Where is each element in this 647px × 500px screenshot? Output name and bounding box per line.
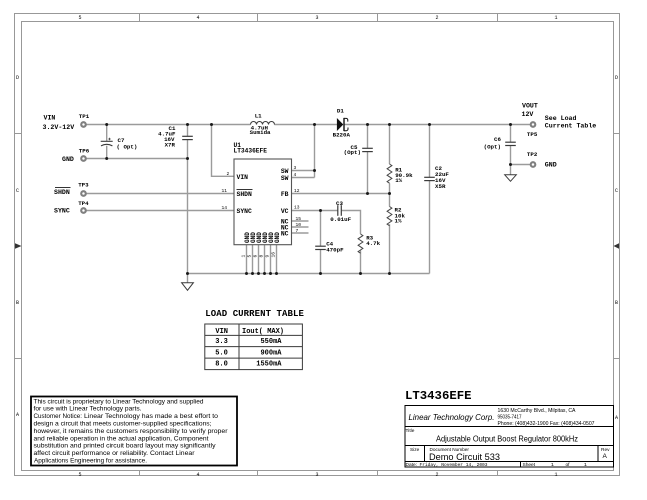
svg-text:5: 5 [247, 255, 253, 258]
capacitor C4 [315, 246, 326, 249]
junction R1 top at rail [388, 123, 391, 126]
load current table text [215, 328, 284, 369]
svg-text:900mA: 900mA [260, 349, 282, 357]
svg-text:Current Table: Current Table [545, 122, 596, 129]
svg-text:LT3436EFE: LT3436EFE [405, 389, 472, 403]
test point TP6 [81, 156, 86, 161]
test point TP5 [531, 122, 536, 127]
svg-text:C3: C3 [336, 200, 343, 207]
svg-text:13: 13 [294, 205, 300, 211]
junction C1 at GND line [186, 157, 189, 160]
wire L1 to D1 anode [275, 124, 338, 126]
svg-text:11: 11 [222, 188, 228, 194]
svg-text:however, it remains the custom: however, it remains the customers respon… [34, 428, 228, 435]
svg-text:15: 15 [296, 216, 302, 222]
wire SW node vertical [314, 125, 316, 178]
svg-text:(Opt): (Opt) [344, 149, 361, 156]
U1 pin names [237, 168, 289, 238]
svg-text:See Load: See Load [545, 115, 577, 122]
svg-text:12: 12 [294, 188, 300, 194]
svg-text:for use with Linear Technology: for use with Linear Technology parts. [34, 406, 142, 413]
wire C1 top branch [187, 125, 189, 137]
svg-text:9: 9 [265, 255, 271, 258]
C1 value label [158, 125, 176, 148]
junction SW pins [313, 169, 316, 172]
test point TP1 [81, 122, 86, 127]
svg-text:TP5: TP5 [527, 131, 538, 138]
junction C4 top at VC line [319, 209, 322, 212]
wire FB line [292, 193, 390, 195]
svg-text:TP1: TP1 [79, 113, 90, 120]
wire C5 top branch [367, 125, 369, 149]
junction gnd pin1 at bus [245, 272, 248, 275]
svg-text:B220A: B220A [333, 131, 351, 138]
svg-text:14: 14 [222, 205, 228, 211]
svg-text:D: D [16, 75, 19, 81]
wire C4 top branch [320, 211, 322, 247]
svg-text:Sheet: Sheet [523, 462, 536, 468]
svg-text:Customer Notice:: Customer Notice: [34, 413, 83, 420]
svg-text:4: 4 [196, 472, 199, 478]
svg-text:Title: Title [406, 428, 415, 434]
junction C7 top at VIN rail [105, 123, 108, 126]
date row [406, 462, 588, 468]
wire U1 gnd pin6 [258, 245, 260, 274]
wire R2 bottom [389, 224, 391, 273]
svg-text:5: 5 [78, 15, 81, 21]
C4 value label [326, 241, 344, 254]
wire U1 gnd pin1 [246, 245, 248, 274]
svg-text:SW: SW [281, 168, 289, 175]
svg-text:Iout( MAX): Iout( MAX) [242, 328, 284, 336]
svg-text:TP2: TP2 [527, 151, 538, 158]
junction SW node at rail [313, 123, 316, 126]
svg-text:0.01uF: 0.01uF [330, 216, 351, 223]
load current table grid [205, 324, 303, 370]
wire C6 bottom branch [510, 146, 512, 165]
svg-text:1: 1 [554, 472, 557, 478]
junction gnd pin9 at bus [269, 272, 272, 275]
node VOUT label [522, 102, 538, 118]
svg-text:7: 7 [296, 228, 299, 234]
capacitor C1 [182, 136, 193, 139]
junction C1 branch at ground bus [186, 272, 189, 275]
node VIN label [43, 115, 75, 131]
junction gnd pin16 at bus [275, 272, 278, 275]
svg-text:3: 3 [315, 15, 318, 21]
svg-text:A: A [603, 453, 608, 460]
resistor R3 [358, 234, 363, 253]
svg-text:1%: 1% [395, 218, 402, 225]
svg-text:1550mA: 1550mA [256, 361, 282, 369]
svg-text:8: 8 [259, 255, 265, 258]
svg-text:D: D [615, 75, 618, 81]
svg-text:550mA: 550mA [260, 338, 282, 346]
wire SW pin4 [292, 177, 315, 179]
IC U1 LT3436EFE box [234, 159, 292, 245]
capacitor C3 [338, 205, 342, 216]
test point TP4 [81, 208, 86, 213]
svg-text:LOAD CURRENT TABLE: LOAD CURRENT TABLE [205, 309, 304, 319]
capacitor C6 [505, 142, 516, 145]
svg-text:Friday, November 14, 2003: Friday, November 14, 2003 [420, 462, 488, 468]
svg-text:affect circuit performance or: affect circuit performance or reliabilit… [34, 450, 195, 457]
svg-text:Phone: (408)432-1900 Fax: (408: Phone: (408)432-1900 Fax: (408)434-0507 [498, 421, 595, 427]
junction R3 bottom at bus [359, 272, 362, 275]
wire VC line to C3 [292, 210, 338, 212]
wire SHDN line TP3 to pin11 [87, 193, 235, 195]
junction C6 bottom at TP2 line [509, 163, 512, 166]
wire C1 bottom branch [187, 140, 189, 274]
svg-text:of: of [566, 462, 571, 468]
svg-text:470pF: 470pF [326, 246, 344, 253]
wire C7 top branch [106, 125, 108, 142]
svg-text:2: 2 [435, 472, 438, 478]
junction gnd pin5 at bus [251, 272, 254, 275]
svg-text:4.7k: 4.7k [366, 240, 380, 247]
svg-text:1%: 1% [395, 177, 402, 184]
wire U1 gnd pin16 [276, 245, 278, 274]
svg-text:3: 3 [315, 472, 318, 478]
wire C7 bottom branch [106, 146, 108, 159]
disclaimer notice box [31, 397, 237, 466]
svg-text:B: B [16, 300, 19, 306]
junction C2 top at rail [428, 123, 431, 126]
wire R1 top [389, 125, 391, 165]
wire C5 bottom branch [367, 152, 369, 194]
svg-text:and reliable operation in the: and reliable operation in the actual app… [34, 435, 209, 442]
wire C3 right to R3 [341, 211, 360, 235]
wire R1 bottom [389, 183, 391, 193]
svg-text:VIN: VIN [237, 174, 249, 181]
U1 reference labels [234, 142, 268, 155]
wire C6 top branch [510, 125, 512, 143]
svg-text:C: C [615, 188, 618, 194]
svg-text:16: 16 [271, 252, 277, 258]
svg-text:SYNC: SYNC [54, 208, 70, 215]
junction C5 bottom at FB line [366, 192, 369, 195]
svg-text:2: 2 [227, 171, 230, 177]
resistor R1 [387, 164, 392, 183]
wire VIN pin tap [212, 125, 235, 177]
svg-text:4: 4 [294, 172, 297, 178]
svg-text:design a circuit that meets cu: design a circuit that meets customer-sup… [34, 421, 212, 428]
svg-text:1630 McCarthy Blvd., Milpitas,: 1630 McCarthy Blvd., Milpitas, CA [498, 408, 576, 414]
svg-text:C: C [16, 188, 19, 194]
wire R2 top [389, 194, 391, 207]
svg-text:Date:: Date: [406, 462, 417, 468]
inductor L1 [251, 122, 275, 125]
svg-text:5: 5 [78, 472, 81, 478]
svg-text:1: 1 [554, 15, 557, 21]
svg-text:VIN: VIN [44, 115, 56, 122]
wire VIN rail TP1 to L1 [87, 124, 251, 126]
note see load current table [545, 115, 596, 129]
svg-text:X7R: X7R [165, 141, 176, 148]
C2 value label [435, 165, 449, 190]
svg-text:VC: VC [281, 208, 289, 215]
C6 value label [484, 136, 502, 150]
junction R2 bottom at bus [388, 272, 391, 275]
svg-text:Size: Size [410, 447, 420, 453]
svg-text:D1: D1 [337, 108, 344, 115]
wire U1 gnd pin5 [252, 245, 254, 274]
junction C7 bottom at GND line [105, 157, 108, 160]
svg-text:VOUT: VOUT [522, 102, 538, 109]
svg-text:Sumida: Sumida [250, 129, 271, 136]
C3 value label [330, 200, 351, 223]
capacitor C2 [424, 177, 435, 180]
svg-text:1: 1 [241, 255, 247, 258]
svg-text:GND: GND [274, 232, 281, 243]
L1 value label [250, 113, 271, 136]
C5 value label [344, 144, 361, 156]
svg-text:TP3: TP3 [78, 181, 89, 188]
wire U1 gnd pin8 [264, 245, 266, 274]
svg-text:GND: GND [62, 156, 74, 163]
test point TP3 [81, 191, 86, 196]
svg-text:Linear Technology Corp.: Linear Technology Corp. [409, 413, 495, 422]
svg-text:SYNC: SYNC [237, 208, 253, 215]
C7 value label [117, 137, 138, 150]
ground symbol left [182, 283, 194, 291]
wire U1 gnd pin9 [270, 245, 272, 274]
svg-text:TP6: TP6 [79, 148, 90, 155]
svg-text:A: A [615, 415, 618, 421]
disclaimer text [34, 398, 228, 464]
U1 pin numbers [222, 165, 302, 258]
wire gnd stem right [510, 165, 512, 175]
R3 value label [366, 235, 380, 247]
svg-text:10: 10 [296, 222, 302, 228]
svg-text:5.0: 5.0 [215, 349, 228, 357]
junction C5 top at rail [366, 123, 369, 126]
svg-text:(Opt): (Opt) [484, 144, 501, 151]
svg-text:8.0: 8.0 [215, 361, 228, 369]
svg-text:GND: GND [545, 162, 557, 169]
wire NC stub pin15 [292, 220, 309, 222]
svg-text:4: 4 [196, 15, 199, 21]
svg-text:Demo Circuit 533: Demo Circuit 533 [429, 451, 500, 462]
svg-text:substitution and printed circu: substitution and printed circuit board l… [34, 443, 217, 450]
svg-text:This circuit is proprietary to: This circuit is proprietary to Linear Te… [34, 398, 204, 405]
D1 value label [333, 108, 351, 139]
svg-text:B: B [615, 300, 618, 306]
wire SW pin3 [292, 170, 315, 172]
company address [498, 408, 595, 427]
svg-text:3: 3 [294, 165, 297, 171]
svg-text:TP4: TP4 [78, 200, 89, 207]
junction gnd pin8 at bus [263, 272, 266, 275]
diode D1 (B220A schottky) [337, 118, 348, 131]
svg-text:SHDN: SHDN [237, 191, 253, 198]
junction C1 top at VIN rail [186, 123, 189, 126]
junction VIN pin tap at rail [210, 123, 213, 126]
svg-text:12V: 12V [522, 111, 534, 118]
wire C4 bottom branch [320, 249, 322, 273]
wire C2 bottom branch [429, 181, 431, 274]
svg-text:2: 2 [435, 15, 438, 21]
svg-text:Linear Technology has made a b: Linear Technology has made a best effort… [84, 413, 219, 420]
wire ground bus [188, 273, 430, 275]
wire R3 bottom [360, 251, 362, 274]
junction C6 top at rail [509, 123, 512, 126]
svg-text:( Opt): ( Opt) [117, 143, 138, 150]
svg-text:6: 6 [253, 255, 259, 258]
title block grid [405, 406, 614, 468]
svg-text:A: A [16, 412, 19, 418]
resistor R2 [387, 207, 392, 226]
ground symbol right [505, 175, 517, 182]
svg-text:FB: FB [281, 191, 289, 198]
R2 value label [395, 206, 406, 224]
capacitor C5 [362, 148, 373, 151]
svg-text:Applications Engineering for a: Applications Engineering for assistance. [34, 458, 147, 465]
junction R1-R2 FB node [388, 192, 391, 195]
wire TP2 line [511, 164, 531, 166]
junction C4 bottom at bus [319, 272, 322, 275]
svg-text:1: 1 [551, 462, 554, 468]
wire D1 cathode to TP5 [345, 124, 531, 126]
wire SYNC line TP4 to pin14 [87, 210, 235, 212]
svg-text:NC: NC [281, 230, 289, 237]
svg-text:1: 1 [584, 462, 587, 468]
wire TP6 gnd line [87, 158, 188, 160]
test point TP2 [531, 162, 536, 167]
svg-text:3.2V-12V: 3.2V-12V [43, 124, 75, 131]
svg-text:VIN: VIN [215, 328, 228, 336]
junction gnd pin6 at bus [257, 272, 260, 275]
svg-text:LT3436EFE: LT3436EFE [234, 148, 268, 155]
wire NC stub pin10 [292, 226, 309, 228]
capacitor C7 (optional polarized) [101, 138, 113, 146]
svg-text:C6: C6 [494, 136, 501, 143]
wire NC stub pin7 [292, 232, 309, 234]
wire C2 top branch [429, 125, 431, 178]
svg-text:X5R: X5R [435, 183, 446, 190]
svg-text:95035-7417: 95035-7417 [498, 415, 522, 421]
R1 value label [395, 166, 413, 184]
test point labels [78, 113, 538, 207]
wire gnd stem left [187, 274, 189, 283]
svg-text:SHDN: SHDN [54, 189, 70, 196]
frame center arrows [15, 243, 22, 249]
svg-text:Adjustable Output Boost Regula: Adjustable Output Boost Regulator 800kHz [436, 435, 578, 444]
U1 GND pin names (rotated) [244, 232, 281, 243]
svg-text:3.3: 3.3 [215, 338, 228, 346]
svg-text:L1: L1 [255, 113, 262, 120]
svg-text:SW: SW [281, 175, 289, 182]
